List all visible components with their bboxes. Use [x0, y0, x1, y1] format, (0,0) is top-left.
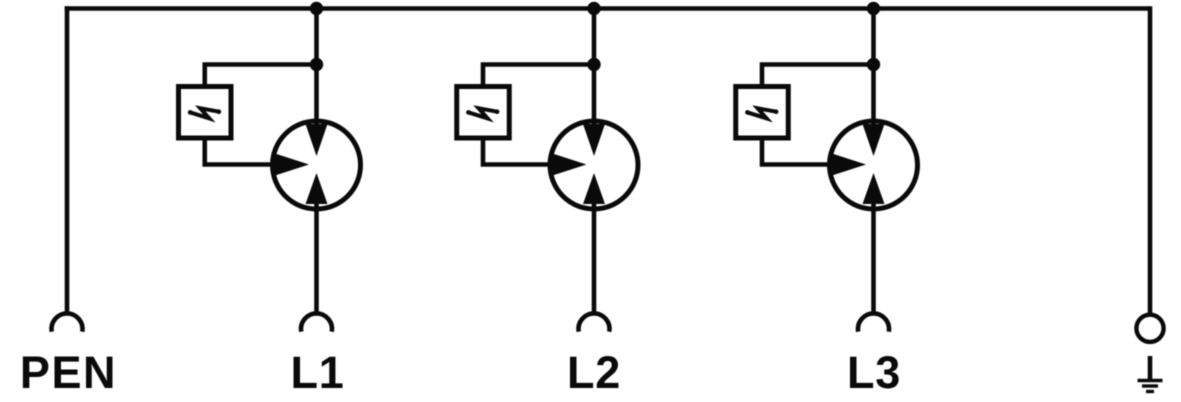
terminal L1 (plug contact arc)	[301, 313, 332, 331]
electrode arrow L2: left (pointing right)	[553, 154, 587, 176]
wire: L3 branch to disconnector box	[762, 65, 874, 87]
junction: L1 tap on PEN bus	[310, 2, 323, 15]
ground (earth) symbol	[1138, 381, 1163, 392]
junction: L2 tap on PEN bus	[587, 2, 600, 15]
wire: L2 vertical drop from bus into arrester	[592, 9, 597, 132]
wire: L3 vertical drop from bus into arrester	[871, 9, 876, 132]
junction: L2 branch to disconnector	[587, 58, 600, 71]
terminal L3 (plug contact arc)	[858, 313, 889, 331]
wire: L1 arrester down to terminal	[314, 203, 319, 313]
wire: L1 disconnector box to spark-gap arrester	[205, 137, 275, 165]
wire: L3 disconnector box to spark-gap arrester	[762, 137, 832, 165]
junction: L1 branch to disconnector	[310, 58, 323, 71]
disconnector box L1 (thermal disconnect indicator)	[179, 87, 232, 139]
wire: L1 branch to disconnector box	[205, 65, 317, 87]
terminal L2 (plug contact arc)	[579, 313, 610, 331]
electrode arrow L1: top (pointing down)	[306, 124, 328, 156]
wire: L1 vertical drop from bus into arrester	[314, 9, 319, 132]
earth terminal (open circle)	[1136, 315, 1163, 342]
wire: L3 arrester down to terminal	[871, 203, 876, 313]
disconnector box L2 (thermal disconnect indicator)	[457, 87, 510, 139]
electrode arrow L1: left (pointing right)	[275, 154, 309, 176]
wire: stub to ground symbol	[1148, 356, 1153, 380]
electrode arrow L3: top (pointing down)	[863, 124, 885, 156]
wire: L2 disconnector box to spark-gap arrester	[483, 137, 553, 165]
wire: L2 branch to disconnector box	[483, 65, 594, 87]
flash symbol inside disconnector box L1	[188, 108, 221, 118]
svg-text:L3: L3	[847, 347, 901, 398]
electrode arrow L2: bottom (pointing up)	[583, 173, 605, 204]
electrode arrow L3: left (pointing right)	[832, 154, 866, 176]
svg-text:PEN: PEN	[20, 347, 117, 398]
wire: PEN vertical drop	[65, 6, 70, 313]
junction: L3 tap on PEN bus	[867, 2, 880, 15]
disconnector box L3 (thermal disconnect indicator)	[736, 87, 789, 139]
svg-text:L2: L2	[567, 347, 621, 398]
wire: L2 arrester down to terminal	[592, 203, 597, 313]
electrode arrow L2: top (pointing down)	[583, 124, 605, 156]
svg-text:L1: L1	[290, 347, 344, 398]
electrode arrow L3: bottom (pointing up)	[863, 173, 885, 204]
wire: top PEN bus (horizontal)	[65, 6, 1150, 11]
electrode arrow L1: bottom (pointing up)	[306, 173, 328, 204]
spark-gap arrester L2 (circle)	[550, 121, 638, 209]
flash symbol inside disconnector box L3	[745, 108, 778, 118]
wire: earth conductor vertical drop	[1148, 6, 1153, 314]
junction: L3 branch to disconnector	[867, 58, 880, 71]
spark-gap arrester L1 (circle)	[273, 121, 361, 209]
terminal PEN (plug contact arc)	[52, 313, 83, 331]
spark-gap arrester L3 (circle)	[830, 121, 918, 209]
flash symbol inside disconnector box L2	[466, 108, 499, 118]
